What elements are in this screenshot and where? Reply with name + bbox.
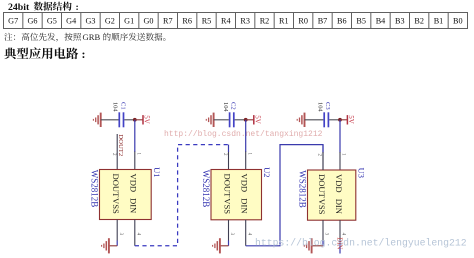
svg-text:G4: G4 (66, 17, 76, 26)
pin 4 DIN stub U3 (339, 220, 341, 240)
svg-text:B7: B7 (318, 17, 328, 26)
svg-text:R6: R6 (182, 17, 192, 26)
svg-text:DOUT2: DOUT2 (117, 134, 124, 156)
svg-text:https://blog.csdn.net/lengyuel: https://blog.csdn.net/lengyueleng212 (255, 237, 467, 248)
svg-text:2: 2 (222, 153, 227, 156)
svg-text:B0: B0 (453, 17, 463, 26)
ground (VSS U2) (213, 238, 220, 253)
svg-text:1: 1 (246, 153, 251, 156)
svg-text:C1: C1 (119, 102, 126, 110)
pin 3 VSS stub U3 (322, 220, 324, 240)
pin 2 DOUT stub U1 (116, 134, 118, 170)
svg-text:5V: 5V (253, 115, 261, 124)
svg-text:104: 104 (112, 102, 119, 112)
ground (VSS U1) (102, 238, 109, 253)
svg-text:5V: 5V (347, 115, 355, 124)
wire cap to junction (235, 119, 246, 121)
svg-text:WS2812B: WS2812B (90, 170, 100, 208)
svg-text:104: 104 (317, 102, 324, 112)
svg-text:24bit: 24bit (8, 2, 30, 13)
note: high bit first, send in GRB order (4, 32, 165, 42)
svg-text:104: 104 (222, 102, 229, 112)
ground (VSS U3) (304, 238, 311, 253)
svg-text:1: 1 (135, 153, 140, 156)
svg-text:U2: U2 (262, 167, 272, 177)
svg-text:B5: B5 (356, 17, 366, 26)
svg-text:G5: G5 (47, 17, 57, 26)
wire cap to junction (329, 119, 340, 121)
IC U2 WS2812B body (211, 170, 262, 220)
ground (C3 top) (297, 113, 304, 127)
svg-text:VSS: VSS (317, 199, 327, 215)
pin 1 VDD stub U3 (339, 152, 341, 170)
svg-text:DIN: DIN (129, 198, 139, 214)
svg-text:3: 3 (229, 233, 234, 236)
24bit data table (4, 13, 468, 29)
pin 3 VSS stub U2 (228, 220, 230, 241)
svg-text:R7: R7 (163, 17, 173, 26)
capacitor C3 (324, 112, 328, 127)
svg-text:GRB: GRB (83, 32, 101, 42)
wire 5V net to VDD pin block 1 (134, 120, 136, 152)
pin 2 DOUT upper stub U3 (322, 152, 324, 170)
capacitor C2 (230, 112, 234, 127)
svg-text:C3: C3 (324, 102, 331, 110)
pin 3 VSS stub U1 (116, 220, 118, 241)
ground (C2 top) (206, 113, 213, 127)
wire 5V net to VDD pin block 3 (339, 120, 341, 153)
IC U1 WS2812B body (100, 170, 152, 220)
svg-text:G1: G1 (124, 17, 134, 26)
svg-text:4: 4 (341, 233, 346, 236)
svg-text:DIN: DIN (240, 198, 250, 214)
power 5V block 1 (142, 115, 144, 124)
svg-text:R0: R0 (298, 17, 308, 26)
pin 1 VDD stub U2 (245, 152, 247, 170)
wire VSS to ground block 1 (109, 245, 117, 247)
svg-text:DOUT: DOUT (222, 174, 232, 199)
svg-text:3: 3 (324, 233, 329, 236)
wire 5V net to VDD pin block 2 (245, 120, 247, 152)
svg-text:VSS: VSS (111, 198, 121, 214)
wire junction to 5V (135, 119, 143, 121)
svg-text:B1: B1 (434, 17, 444, 26)
node junction VDD/5V block 2 (244, 118, 248, 122)
svg-text:U3: U3 (357, 168, 367, 178)
wire U2 DIN to U3 DOUT (246, 145, 323, 246)
svg-text:G3: G3 (85, 17, 95, 26)
svg-text:C2: C2 (230, 102, 237, 110)
pin 4 DIN stub U2 (245, 220, 247, 246)
wire junction to 5V (340, 119, 347, 121)
svg-text:R4: R4 (221, 17, 231, 26)
wire cap to junction (124, 119, 135, 121)
svg-text:2: 2 (111, 153, 116, 156)
wire VSS to ground block 2 (220, 245, 229, 247)
svg-text:DOUT: DOUT (111, 174, 121, 199)
svg-text:VSS: VSS (222, 198, 232, 214)
svg-text:2: 2 (317, 154, 322, 157)
wire junction to 5V (246, 119, 254, 121)
heading: 24bit data structure title (8, 2, 79, 13)
pin 1 VDD stub U1 (134, 152, 136, 170)
power 5V block 3 (346, 115, 348, 124)
svg-text:U1: U1 (152, 167, 162, 177)
svg-text:G0: G0 (143, 17, 153, 26)
svg-text:G7: G7 (8, 17, 18, 26)
svg-text:R1: R1 (279, 17, 289, 26)
svg-text::: : (76, 2, 79, 13)
svg-text:VDD: VDD (240, 174, 250, 193)
svg-text:DIN: DIN (334, 199, 344, 215)
svg-text:WS2812B: WS2812B (298, 170, 308, 208)
svg-text:B2: B2 (414, 17, 424, 26)
heading: typical application circuit (4, 47, 85, 61)
svg-text:5V: 5V (143, 115, 151, 124)
capacitor C1 (119, 112, 123, 127)
svg-text:4: 4 (246, 233, 251, 236)
svg-text::: : (82, 47, 86, 61)
svg-text:B6: B6 (337, 17, 347, 26)
svg-text:B3: B3 (395, 17, 405, 26)
svg-text:http://blog.csdn.net/tangxing1: http://blog.csdn.net/tangxing1212 (164, 130, 323, 139)
svg-text:VDD: VDD (129, 174, 139, 193)
svg-text:WS2812B: WS2812B (201, 170, 211, 208)
svg-text:G6: G6 (27, 17, 37, 26)
svg-text:VDD: VDD (334, 174, 344, 193)
IC U3 WS2812B body (308, 170, 356, 220)
node junction VDD/5V block 1 (133, 118, 137, 122)
power 5V block 2 (253, 115, 255, 124)
wire gnd to cap (305, 119, 324, 121)
pin 4 DIN stub U1 (134, 220, 136, 246)
wire VSS to ground block 3 (312, 245, 323, 247)
node junction VDD/5V block 3 (338, 118, 342, 122)
dashed cascade wire U1 DIN to U2 DOUT (135, 145, 229, 246)
svg-text:R3: R3 (240, 17, 250, 26)
wire gnd to cap (101, 119, 119, 121)
pin 2 DOUT stub U2 (228, 152, 230, 170)
wire gnd to cap (214, 119, 229, 121)
svg-text:R5: R5 (202, 17, 212, 26)
pin 2 DOUT stub U3 (322, 152, 324, 170)
svg-text:R2: R2 (260, 17, 270, 26)
svg-text:4: 4 (135, 233, 140, 236)
ground (C1 top) (93, 113, 100, 127)
svg-text:1: 1 (341, 153, 346, 156)
svg-text:3: 3 (118, 233, 123, 236)
svg-text:DOUT: DOUT (317, 174, 327, 199)
svg-text:G2: G2 (105, 17, 115, 26)
svg-text:B4: B4 (376, 17, 386, 26)
